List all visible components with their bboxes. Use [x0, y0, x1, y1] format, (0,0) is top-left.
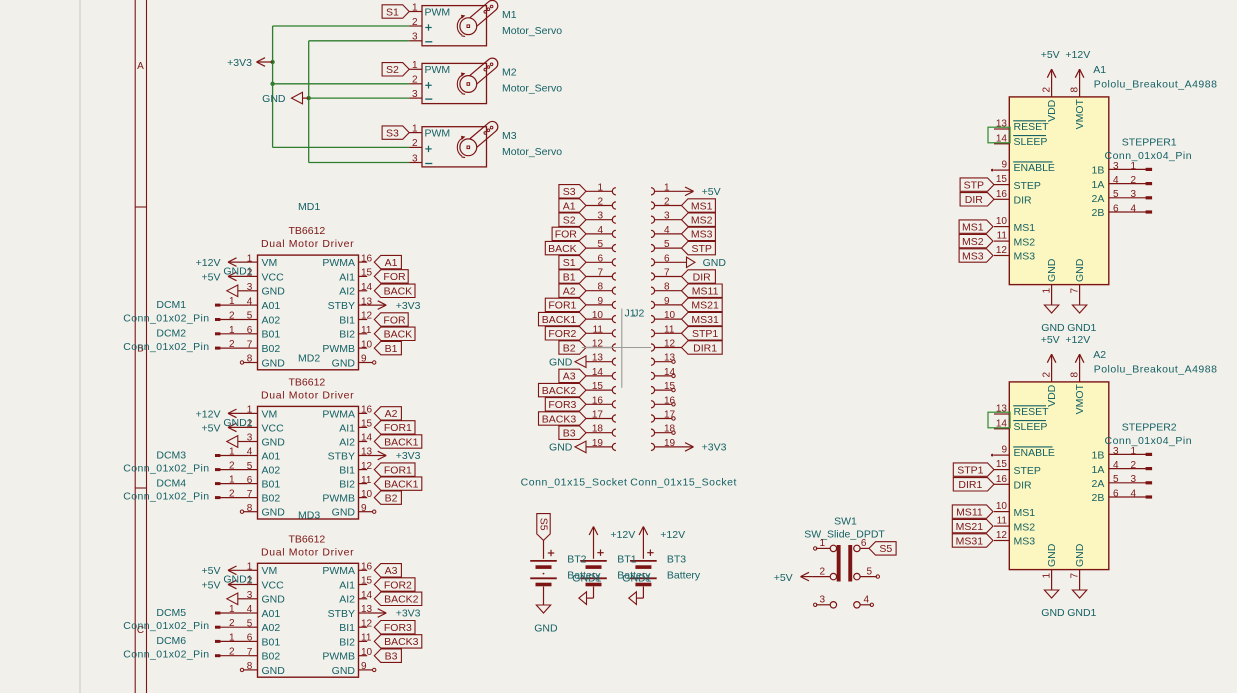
svg-text:MS2: MS2 — [962, 236, 984, 248]
svg-text:+12V: +12V — [196, 257, 221, 269]
svg-text:5: 5 — [866, 566, 872, 577]
svg-text:+12V: +12V — [1065, 49, 1090, 61]
svg-text:A3: A3 — [563, 371, 576, 383]
svg-text:16: 16 — [361, 562, 373, 573]
svg-text:12: 12 — [361, 461, 373, 472]
svg-text:S3: S3 — [563, 186, 576, 198]
svg-text:+5V: +5V — [202, 422, 221, 434]
svg-text:A02: A02 — [262, 622, 281, 634]
svg-text:B01: B01 — [262, 479, 281, 491]
svg-text:BACK3: BACK3 — [384, 636, 419, 648]
svg-text:10: 10 — [996, 216, 1008, 227]
svg-text:A02: A02 — [262, 465, 281, 477]
svg-text:3: 3 — [597, 211, 603, 222]
svg-text:STBY: STBY — [328, 450, 355, 462]
svg-text:A02: A02 — [262, 314, 281, 326]
svg-text:15: 15 — [361, 576, 373, 587]
svg-text:1: 1 — [412, 60, 418, 71]
svg-text:BACK: BACK — [548, 243, 577, 255]
svg-text:1: 1 — [229, 325, 235, 336]
svg-text:A: A — [137, 61, 144, 72]
svg-text:MD3: MD3 — [298, 509, 320, 521]
svg-text:13: 13 — [996, 119, 1008, 130]
svg-text:4: 4 — [597, 225, 603, 236]
svg-text:TB6612: TB6612 — [289, 376, 326, 388]
svg-text:11: 11 — [361, 325, 372, 336]
svg-text:STP: STP — [691, 243, 711, 255]
svg-text:DIR: DIR — [693, 271, 712, 283]
svg-text:8: 8 — [247, 354, 253, 365]
svg-text:BI2: BI2 — [339, 479, 355, 491]
svg-text:STEPPER2: STEPPER2 — [1122, 421, 1177, 433]
svg-text:ENABLE: ENABLE — [1014, 447, 1055, 459]
svg-text:PWMA: PWMA — [322, 408, 355, 420]
svg-text:Conn_01x02_Pin: Conn_01x02_Pin — [123, 620, 209, 632]
svg-text:MD1: MD1 — [298, 201, 320, 213]
svg-text:7: 7 — [597, 268, 603, 279]
svg-text:VM: VM — [262, 257, 278, 269]
svg-text:Conn_01x15_Socket: Conn_01x15_Socket — [630, 477, 737, 489]
svg-text:+12V: +12V — [196, 408, 221, 420]
svg-text:14: 14 — [361, 590, 373, 601]
svg-text:FOR1: FOR1 — [384, 422, 412, 434]
svg-text:GND: GND — [262, 286, 286, 298]
svg-text:FOR: FOR — [383, 314, 406, 326]
svg-text:2A: 2A — [1092, 478, 1105, 490]
svg-text:15: 15 — [592, 381, 604, 392]
svg-text:1: 1 — [597, 182, 603, 193]
svg-text:BT1: BT1 — [617, 553, 636, 565]
svg-text:MS3: MS3 — [1014, 536, 1036, 548]
svg-text:+3V3: +3V3 — [227, 57, 252, 69]
svg-text:16: 16 — [996, 474, 1008, 485]
svg-text:+12V: +12V — [1065, 334, 1090, 346]
svg-text:RESET: RESET — [1014, 406, 1050, 418]
svg-text:6: 6 — [861, 538, 867, 549]
svg-text:8: 8 — [1070, 87, 1081, 93]
svg-text:2: 2 — [597, 197, 603, 208]
svg-text:DCM1: DCM1 — [156, 299, 186, 311]
svg-text:Conn_01x04_Pin: Conn_01x04_Pin — [1105, 435, 1193, 447]
svg-text:14: 14 — [361, 433, 373, 444]
svg-text:PWM: PWM — [425, 64, 451, 76]
svg-text:10: 10 — [592, 310, 604, 321]
svg-text:11: 11 — [361, 633, 372, 644]
svg-text:STEP: STEP — [1014, 465, 1041, 477]
svg-text:GND: GND — [262, 665, 286, 677]
svg-text:3: 3 — [412, 89, 418, 100]
svg-text:GND1: GND1 — [223, 574, 252, 586]
svg-text:2: 2 — [412, 138, 418, 149]
svg-text:4: 4 — [1113, 175, 1119, 186]
svg-text:6: 6 — [597, 253, 603, 264]
svg-text:7: 7 — [1070, 573, 1081, 579]
svg-text:2B: 2B — [1092, 492, 1105, 504]
svg-text:DIR: DIR — [1014, 195, 1033, 207]
svg-text:2: 2 — [1131, 175, 1137, 186]
svg-text:AI2: AI2 — [339, 436, 355, 448]
svg-text:BACK: BACK — [384, 286, 413, 298]
svg-text:2B: 2B — [1092, 207, 1105, 219]
svg-text:Motor_Servo: Motor_Servo — [502, 146, 562, 158]
svg-text:S2: S2 — [386, 64, 399, 76]
svg-text:8: 8 — [247, 661, 253, 672]
svg-text:MS11: MS11 — [956, 506, 983, 518]
svg-text:B1: B1 — [385, 343, 398, 355]
svg-text:12: 12 — [361, 618, 373, 629]
svg-text:M3: M3 — [502, 130, 517, 142]
svg-text:11: 11 — [593, 324, 604, 335]
svg-text:A3: A3 — [385, 565, 398, 577]
svg-text:GND1: GND1 — [223, 266, 252, 278]
svg-text:2: 2 — [229, 647, 235, 658]
svg-text:3: 3 — [412, 32, 418, 43]
svg-text:PWMB: PWMB — [322, 651, 355, 663]
svg-text:+12V: +12V — [660, 529, 685, 541]
svg-text:2: 2 — [1131, 460, 1137, 471]
svg-text:MS3: MS3 — [1014, 251, 1036, 263]
svg-text:BACK1: BACK1 — [384, 478, 419, 490]
svg-text:5: 5 — [1113, 474, 1119, 485]
svg-text:S5: S5 — [537, 518, 549, 531]
svg-text:5: 5 — [597, 239, 603, 250]
svg-text:1: 1 — [1131, 161, 1137, 172]
svg-text:GND: GND — [332, 665, 356, 677]
svg-text:Motor_Servo: Motor_Servo — [502, 83, 562, 95]
svg-text:9: 9 — [1001, 445, 1007, 456]
svg-text:SLEEP: SLEEP — [1014, 136, 1048, 148]
svg-text:+5V: +5V — [202, 271, 221, 283]
svg-text:1: 1 — [412, 2, 418, 13]
svg-text:+5V: +5V — [202, 579, 221, 591]
svg-text:B2: B2 — [385, 492, 398, 504]
svg-text:15: 15 — [996, 174, 1008, 185]
svg-text:BI2: BI2 — [339, 329, 355, 341]
svg-text:VCC: VCC — [262, 271, 285, 283]
svg-text:PWM: PWM — [425, 6, 451, 18]
svg-text:GND1: GND1 — [223, 417, 252, 429]
svg-text:Conn_01x02_Pin: Conn_01x02_Pin — [123, 463, 209, 475]
svg-text:1B: 1B — [1092, 165, 1105, 177]
svg-text:BACK2: BACK2 — [384, 594, 419, 606]
svg-text:GND1: GND1 — [572, 573, 601, 585]
svg-text:17: 17 — [592, 410, 604, 421]
svg-text:4: 4 — [1131, 488, 1137, 499]
svg-text:3: 3 — [412, 153, 418, 164]
svg-text:15: 15 — [361, 419, 373, 430]
svg-text:M2: M2 — [502, 67, 517, 79]
svg-text:GND: GND — [332, 357, 356, 369]
svg-text:GND: GND — [262, 93, 286, 105]
svg-text:10: 10 — [996, 501, 1008, 512]
svg-text:12: 12 — [996, 245, 1008, 256]
svg-text:10: 10 — [361, 339, 373, 350]
svg-text:+3V3: +3V3 — [396, 450, 421, 462]
svg-text:11: 11 — [997, 231, 1008, 242]
svg-text:MS3: MS3 — [691, 229, 713, 241]
svg-text:GND: GND — [1041, 322, 1065, 334]
svg-text:4: 4 — [1113, 460, 1119, 471]
svg-text:BT2: BT2 — [567, 553, 586, 565]
svg-text:9: 9 — [361, 503, 367, 514]
svg-text:Conn_01x02_Pin: Conn_01x02_Pin — [123, 491, 209, 503]
svg-text:FOR: FOR — [555, 229, 578, 241]
svg-text:STBY: STBY — [328, 608, 355, 620]
svg-text:MS2: MS2 — [1014, 521, 1036, 533]
svg-text:B3: B3 — [563, 428, 576, 440]
svg-text:Conn_01x04_Pin: Conn_01x04_Pin — [1105, 150, 1193, 162]
svg-text:DIR1: DIR1 — [958, 479, 982, 491]
svg-text:2: 2 — [229, 339, 235, 350]
svg-text:1B: 1B — [1092, 450, 1105, 462]
svg-text:5: 5 — [1113, 189, 1119, 200]
svg-text:FOR: FOR — [383, 271, 406, 283]
svg-text:BI1: BI1 — [339, 314, 355, 326]
svg-text:2: 2 — [1042, 87, 1053, 93]
svg-text:4: 4 — [863, 595, 869, 606]
svg-text:GND: GND — [1046, 258, 1058, 282]
svg-text:B01: B01 — [262, 329, 281, 341]
svg-text:GND: GND — [262, 594, 286, 606]
svg-text:GND: GND — [549, 442, 573, 454]
svg-text:A01: A01 — [262, 608, 281, 620]
svg-text:S1: S1 — [386, 6, 399, 18]
svg-text:1: 1 — [229, 475, 235, 486]
svg-text:MS21: MS21 — [691, 300, 719, 312]
svg-text:S2: S2 — [563, 215, 576, 227]
svg-text:1A: 1A — [1092, 464, 1105, 476]
svg-text:16: 16 — [361, 405, 373, 416]
svg-text:9: 9 — [1001, 160, 1007, 171]
svg-text:MS21: MS21 — [956, 521, 984, 533]
svg-text:13: 13 — [592, 353, 604, 364]
svg-text:GND: GND — [549, 357, 573, 369]
svg-text:3: 3 — [1113, 446, 1119, 457]
svg-text:VM: VM — [262, 408, 278, 420]
svg-text:1: 1 — [229, 447, 235, 458]
svg-text:VCC: VCC — [262, 422, 285, 434]
svg-text:MS1: MS1 — [962, 221, 984, 233]
svg-text:FOR2: FOR2 — [548, 328, 576, 340]
svg-text:PWMA: PWMA — [322, 257, 355, 269]
svg-text:A1: A1 — [1093, 64, 1106, 76]
svg-text:2: 2 — [229, 489, 235, 500]
svg-text:MS31: MS31 — [691, 314, 719, 326]
svg-text:PWMB: PWMB — [322, 343, 355, 355]
svg-text:BI2: BI2 — [339, 636, 355, 648]
svg-text:+5V: +5V — [1041, 334, 1060, 346]
svg-text:BI1: BI1 — [339, 622, 355, 634]
svg-text:STP: STP — [964, 179, 984, 191]
svg-text:SLEEP: SLEEP — [1014, 421, 1048, 433]
svg-text:PWMA: PWMA — [322, 565, 355, 577]
svg-text:6: 6 — [1113, 488, 1119, 499]
svg-text:2: 2 — [412, 75, 418, 86]
svg-text:+5V: +5V — [202, 565, 221, 577]
svg-text:Battery: Battery — [667, 570, 701, 582]
svg-text:DIR: DIR — [1014, 480, 1033, 492]
svg-text:2: 2 — [229, 461, 235, 472]
svg-text:AI1: AI1 — [339, 271, 355, 283]
svg-text:DCM6: DCM6 — [156, 635, 186, 647]
svg-text:VM: VM — [262, 565, 278, 577]
svg-text:16: 16 — [592, 395, 604, 406]
svg-text:A1: A1 — [385, 257, 398, 269]
svg-text:Conn_01x02_Pin: Conn_01x02_Pin — [123, 649, 209, 661]
svg-text:+12V: +12V — [610, 529, 635, 541]
svg-text:PWM: PWM — [425, 128, 451, 140]
svg-text:MS31: MS31 — [956, 535, 984, 547]
svg-text:VDD: VDD — [1046, 384, 1058, 407]
svg-text:TB6612: TB6612 — [289, 533, 326, 545]
svg-text:STEPPER1: STEPPER1 — [1122, 136, 1177, 148]
svg-text:MS2: MS2 — [1014, 236, 1036, 248]
svg-text:15: 15 — [996, 459, 1008, 470]
svg-text:9: 9 — [361, 661, 367, 672]
svg-text:+3V3: +3V3 — [702, 442, 727, 454]
svg-text:B2: B2 — [563, 342, 576, 354]
svg-text:1: 1 — [1042, 573, 1053, 579]
svg-text:B1: B1 — [563, 271, 576, 283]
svg-text:1: 1 — [1042, 288, 1053, 294]
svg-text:FOR2: FOR2 — [384, 579, 412, 591]
svg-text:BACK3: BACK3 — [542, 413, 577, 425]
svg-text:BACK1: BACK1 — [384, 436, 419, 448]
svg-text:GND: GND — [262, 357, 286, 369]
svg-text:9: 9 — [361, 354, 367, 365]
svg-text:DCM5: DCM5 — [156, 607, 186, 619]
svg-text:ENABLE: ENABLE — [1014, 162, 1055, 174]
svg-text:Conn_01x02_Pin: Conn_01x02_Pin — [123, 341, 209, 353]
svg-text:RESET: RESET — [1014, 121, 1050, 133]
svg-text:B01: B01 — [262, 636, 281, 648]
svg-text:BT3: BT3 — [667, 553, 686, 565]
svg-text:Pololu_Breakout_A4988: Pololu_Breakout_A4988 — [1094, 79, 1218, 91]
svg-text:DIR1: DIR1 — [693, 342, 717, 354]
svg-text:MS3: MS3 — [962, 250, 984, 262]
svg-text:A2: A2 — [563, 286, 576, 298]
svg-text:B02: B02 — [262, 651, 281, 663]
svg-text:15: 15 — [361, 268, 373, 279]
svg-text:2: 2 — [819, 566, 825, 577]
svg-text:BACK2: BACK2 — [542, 385, 577, 397]
svg-text:B02: B02 — [262, 343, 281, 355]
svg-text:GND: GND — [534, 623, 558, 635]
svg-text:MS1: MS1 — [691, 200, 713, 212]
svg-text:VCC: VCC — [262, 579, 285, 591]
svg-text:Motor_Servo: Motor_Servo — [502, 25, 562, 37]
svg-text:3: 3 — [819, 595, 825, 606]
svg-text:2: 2 — [229, 618, 235, 629]
svg-text:FOR3: FOR3 — [384, 622, 412, 634]
svg-text:GND1: GND1 — [1067, 322, 1096, 334]
svg-text:10: 10 — [361, 489, 373, 500]
svg-text:18: 18 — [592, 424, 604, 435]
svg-text:A1: A1 — [563, 200, 576, 212]
svg-text:1: 1 — [229, 296, 235, 307]
svg-text:Dual Motor Driver: Dual Motor Driver — [261, 238, 354, 250]
svg-text:1: 1 — [819, 538, 825, 549]
svg-text:1A: 1A — [1092, 179, 1105, 191]
svg-text:A2: A2 — [1093, 349, 1106, 361]
svg-text:A2: A2 — [385, 408, 398, 420]
svg-text:4: 4 — [1131, 203, 1137, 214]
svg-text:11: 11 — [997, 516, 1008, 527]
svg-text:S3: S3 — [386, 127, 399, 139]
svg-text:VDD: VDD — [1046, 99, 1058, 122]
svg-text:S1: S1 — [563, 257, 576, 269]
svg-text:GND: GND — [1046, 543, 1058, 567]
svg-text:16: 16 — [361, 253, 373, 264]
svg-text:DIR: DIR — [965, 194, 984, 206]
svg-text:GND: GND — [1041, 607, 1065, 619]
svg-text:6: 6 — [1113, 203, 1119, 214]
svg-text:M1: M1 — [502, 9, 517, 21]
svg-text:A01: A01 — [262, 450, 281, 462]
svg-text:3: 3 — [1113, 161, 1119, 172]
svg-text:8: 8 — [1070, 372, 1081, 378]
svg-text:GND: GND — [1074, 543, 1086, 567]
svg-text:VMOT: VMOT — [1074, 98, 1086, 129]
svg-text:Conn_01x15_Socket: Conn_01x15_Socket — [521, 477, 628, 489]
svg-text:14: 14 — [592, 367, 604, 378]
svg-text:9: 9 — [597, 296, 603, 307]
svg-text:14: 14 — [361, 282, 373, 293]
svg-text:MS2: MS2 — [691, 215, 713, 227]
svg-text:8: 8 — [247, 503, 253, 514]
svg-text:11: 11 — [361, 475, 372, 486]
svg-text:GND: GND — [1074, 258, 1086, 282]
svg-text:8: 8 — [597, 282, 603, 293]
svg-text:DCM3: DCM3 — [156, 449, 186, 461]
svg-text:1: 1 — [1131, 446, 1137, 457]
svg-text:1: 1 — [229, 632, 235, 643]
svg-text:10: 10 — [361, 647, 373, 658]
svg-text:2A: 2A — [1092, 193, 1105, 205]
svg-text:MD2: MD2 — [298, 352, 320, 364]
svg-text:SW1: SW1 — [834, 515, 857, 527]
svg-text:FOR1: FOR1 — [548, 300, 576, 312]
svg-text:FOR1: FOR1 — [384, 464, 412, 476]
svg-text:B3: B3 — [385, 651, 398, 663]
svg-text:12: 12 — [996, 530, 1008, 541]
svg-text:STP1: STP1 — [692, 328, 718, 340]
svg-text:DCM4: DCM4 — [156, 477, 186, 489]
svg-text:16: 16 — [996, 189, 1008, 200]
svg-text:+5V: +5V — [702, 186, 721, 198]
svg-text:Dual Motor Driver: Dual Motor Driver — [261, 546, 354, 558]
svg-text:FOR3: FOR3 — [548, 399, 576, 411]
svg-text:AI1: AI1 — [339, 422, 355, 434]
svg-text:SW_Slide_DPDT: SW_Slide_DPDT — [804, 528, 885, 540]
svg-text:BI1: BI1 — [339, 465, 355, 477]
svg-text:GND1: GND1 — [1067, 607, 1096, 619]
svg-text:BACK1: BACK1 — [542, 314, 577, 326]
svg-text:DCM2: DCM2 — [156, 328, 186, 340]
svg-text:Pololu_Breakout_A4988: Pololu_Breakout_A4988 — [1094, 364, 1218, 376]
svg-text:AI1: AI1 — [339, 579, 355, 591]
svg-text:AI2: AI2 — [339, 594, 355, 606]
svg-text:AI2: AI2 — [339, 286, 355, 298]
svg-text:12: 12 — [361, 311, 373, 322]
svg-text:S5: S5 — [879, 543, 892, 555]
svg-text:GND: GND — [332, 507, 356, 519]
svg-text:+5V: +5V — [774, 572, 793, 584]
svg-text:Dual Motor Driver: Dual Motor Driver — [261, 389, 354, 401]
svg-text:19: 19 — [592, 438, 604, 449]
svg-text:B02: B02 — [262, 493, 281, 505]
svg-text:TB6612: TB6612 — [289, 225, 326, 237]
